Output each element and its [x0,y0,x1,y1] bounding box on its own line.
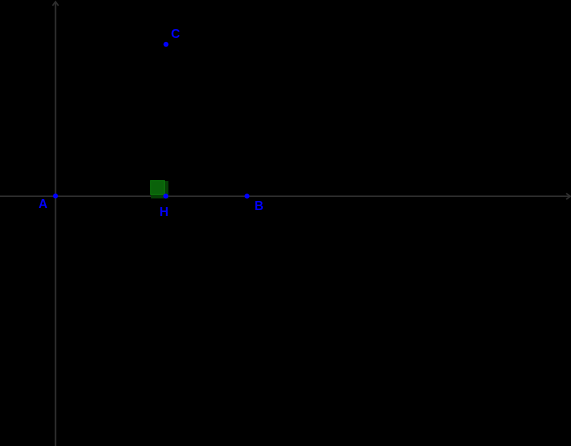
right-angle marker shadow square [151,181,168,198]
point H [163,194,168,199]
svg-text:B: B [255,199,264,213]
y-axis [55,2,57,446]
svg-text:H: H [160,205,169,219]
svg-text:A: A [39,197,48,211]
x-axis arrowhead [566,193,570,199]
svg-text:C: C [171,27,180,41]
x-axis [0,195,570,197]
point A [53,194,58,199]
point B [245,194,250,199]
point C [164,42,169,47]
right-angle marker square [151,181,165,195]
y-axis arrowhead [53,2,59,6]
